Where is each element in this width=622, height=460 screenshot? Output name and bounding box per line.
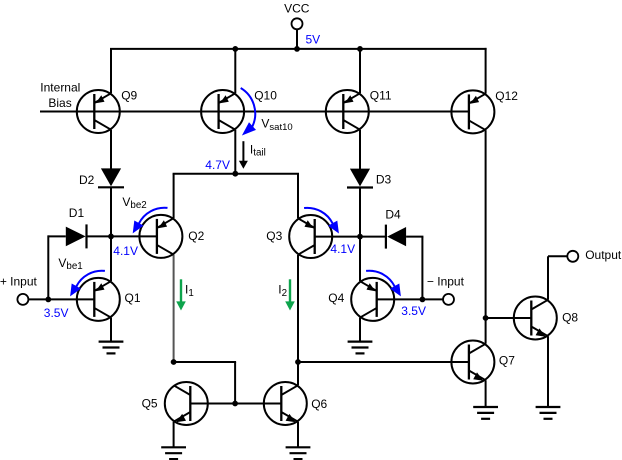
svg-text:D4: D4 <box>385 208 401 222</box>
svg-text:Q10: Q10 <box>254 89 277 103</box>
svg-text:− Input: − Input <box>427 275 465 289</box>
svg-text:4.1V: 4.1V <box>330 242 355 256</box>
svg-text:VCC: VCC <box>284 2 310 16</box>
svg-text:Q5: Q5 <box>142 397 158 411</box>
svg-text:Bias: Bias <box>48 96 71 110</box>
svg-text:Q6: Q6 <box>311 397 327 411</box>
svg-text:+ Input: + Input <box>0 275 37 289</box>
svg-text:Q2: Q2 <box>188 229 204 243</box>
svg-text:D3: D3 <box>376 172 392 186</box>
svg-text:D1: D1 <box>69 206 85 220</box>
svg-text:Q8: Q8 <box>562 310 578 324</box>
svg-text:Q3: Q3 <box>266 229 282 243</box>
svg-text:4.1V: 4.1V <box>113 244 138 258</box>
svg-text:4.7V: 4.7V <box>205 158 230 172</box>
svg-text:Q12: Q12 <box>495 89 518 103</box>
svg-text:3.5V: 3.5V <box>44 306 69 320</box>
svg-text:Q4: Q4 <box>328 291 344 305</box>
svg-text:D2: D2 <box>79 173 95 187</box>
svg-text:Q7: Q7 <box>499 353 515 367</box>
svg-text:Q11: Q11 <box>370 89 392 103</box>
svg-text:5V: 5V <box>306 32 321 46</box>
svg-text:Q1: Q1 <box>125 291 141 305</box>
svg-text:Output: Output <box>585 248 622 262</box>
svg-text:Q9: Q9 <box>121 88 137 102</box>
svg-text:3.5V: 3.5V <box>401 304 426 318</box>
svg-text:Internal: Internal <box>40 80 80 94</box>
